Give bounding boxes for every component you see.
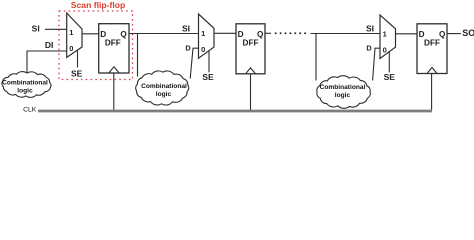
svg-text:0: 0	[383, 45, 387, 54]
svg-text:logic: logic	[17, 88, 33, 95]
mux M3	[380, 15, 396, 59]
wire combinational logic 2 output to mux M2 input 0	[190, 48, 198, 78]
svg-text:1: 1	[383, 30, 387, 39]
flip-flop DFF1	[99, 24, 129, 73]
svg-text:Combinational: Combinational	[141, 83, 187, 90]
svg-text:logic: logic	[156, 91, 172, 98]
wire DFF2 Q output stub	[265, 32, 271, 34]
label "Scan flip-flop"	[71, 0, 125, 10]
node CLK label	[23, 107, 37, 114]
combinational logic 2 (cloud)	[136, 71, 189, 105]
flip-flop DFF3	[417, 24, 447, 74]
wire CLK rail (thick gray)	[38, 110, 432, 113]
combinational logic 3 (cloud)	[317, 76, 371, 109]
node SI label (stage 2)	[182, 23, 190, 33]
node DI (data input label)	[45, 40, 54, 50]
wire into mux M3 input 1	[311, 33, 381, 35]
node SI (primary scan input label)	[32, 23, 40, 33]
combinational logic 1 (cloud)	[2, 72, 51, 98]
flip-flop DFF2	[236, 24, 265, 74]
svg-text:SE: SE	[202, 72, 214, 82]
svg-text:DFF: DFF	[105, 38, 121, 47]
svg-text:Scan flip-flop: Scan flip-flop	[71, 0, 125, 10]
wire DI from combinational logic 1 to mux M1 input 0	[27, 51, 67, 73]
svg-text:D: D	[366, 43, 372, 52]
wire mux M2 output to DFF2 D	[214, 32, 236, 34]
wire DFF3 Q to SO	[447, 33, 461, 35]
svg-text:1: 1	[201, 29, 205, 38]
svg-text:Q: Q	[439, 30, 446, 39]
svg-text:1: 1	[69, 28, 73, 37]
wire junction drop to combinational logic 3	[315, 34, 317, 81]
wire combinational logic 3 output to mux M3 input 0	[373, 48, 380, 80]
label SE (stage 3)	[384, 72, 396, 82]
wire SE stub into mux M2	[208, 51, 210, 72]
svg-text:SO: SO	[462, 28, 474, 38]
wire mux M1 output to DFF1 D	[82, 33, 99, 35]
svg-text:Combinational: Combinational	[320, 84, 366, 91]
svg-text:CLK: CLK	[23, 107, 37, 114]
svg-text:DI: DI	[45, 40, 54, 50]
wire DFF2 clock stub to CLK rail	[250, 74, 252, 111]
svg-text:0: 0	[69, 44, 73, 53]
svg-text:D: D	[185, 43, 191, 52]
svg-text:SI: SI	[182, 23, 190, 33]
label SE (stage 1)	[71, 69, 83, 79]
svg-text:DFF: DFF	[243, 39, 259, 48]
svg-text:Combinational: Combinational	[2, 79, 48, 86]
scan flip-flop boundary (red dashed box)	[59, 11, 133, 80]
ellipsis dots (chain continues)	[275, 32, 306, 34]
mux M1	[67, 13, 82, 57]
svg-text:SE: SE	[71, 69, 83, 79]
svg-text:DFF: DFF	[424, 39, 440, 48]
wire SE stub into mux M1	[77, 50, 79, 67]
node SO (scan output label)	[462, 28, 474, 38]
mux M2	[199, 14, 215, 58]
node SI label (stage 3)	[366, 23, 374, 33]
svg-text:SI: SI	[32, 23, 40, 33]
wire DFF1 clock stub to CLK rail	[113, 73, 115, 111]
wire DFF3 clock stub to CLK rail	[431, 74, 433, 111]
wire DFF1 Q to mux M2 input 1	[129, 33, 199, 35]
wire SI to mux M1 input 1	[45, 28, 67, 30]
wire mux M3 output to DFF3 D	[396, 33, 418, 35]
svg-text:SI: SI	[366, 23, 374, 33]
wire junction drop from Q1 to combinational logic 2	[137, 34, 139, 77]
label D (stage 2)	[185, 43, 191, 52]
svg-text:SE: SE	[384, 72, 396, 82]
svg-text:logic: logic	[335, 92, 351, 99]
wire SE stub into mux M3	[388, 52, 390, 73]
label D (stage 3)	[366, 43, 372, 52]
svg-text:0: 0	[201, 45, 205, 54]
svg-text:Q: Q	[120, 30, 127, 39]
label SE (stage 2)	[202, 72, 214, 82]
